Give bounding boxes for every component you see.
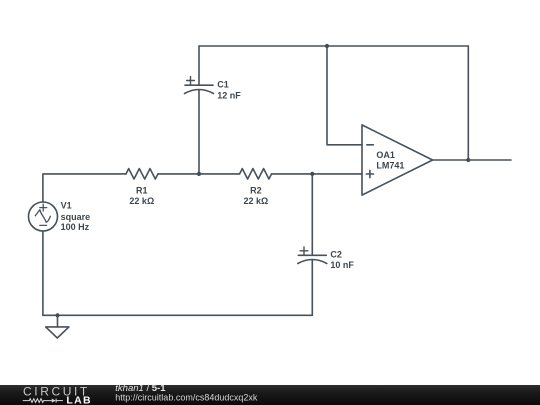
svg-text:http://circuitlab.com/cs84dudc: http://circuitlab.com/cs84dudcxq2xk (115, 392, 258, 402)
op-amp plus symbol (366, 170, 373, 177)
svg-text:LAB: LAB (66, 394, 91, 405)
svg-text:C2: C2 (330, 249, 342, 259)
voltage source V1 (29, 202, 58, 231)
wire C2 lower (311, 260, 313, 315)
svg-text:LM741: LM741 (376, 161, 404, 171)
wire V1 bottom vertical (42, 231, 44, 315)
op-amp U1 triangle (362, 125, 433, 195)
wire output (433, 159, 511, 161)
svg-text:22 kΩ: 22 kΩ (244, 196, 269, 206)
svg-text:R1: R1 (136, 185, 148, 195)
svg-text:100 Hz: 100 Hz (61, 222, 90, 232)
svg-text:10 nF: 10 nF (330, 260, 354, 270)
svg-text:C1: C1 (217, 80, 229, 90)
node R2/C2 junction (310, 172, 314, 176)
node R1/C1 junction (197, 172, 201, 176)
wire bottom rail (43, 314, 312, 316)
wire top feedback horizontal (199, 45, 468, 47)
wire R1 to R2 (158, 173, 240, 175)
svg-text:OA1: OA1 (376, 150, 395, 160)
resistor R2 (240, 169, 272, 179)
wire main row left (V1 to R1) (43, 174, 126, 202)
capacitor C2 (298, 247, 327, 264)
wire C2 upper (311, 174, 313, 255)
wire R2 to op-amp plus input (272, 173, 362, 175)
wire C1 upper (198, 46, 200, 85)
svg-text:V1: V1 (61, 200, 72, 210)
resistor R1 (126, 169, 158, 179)
node output junction (466, 158, 470, 162)
node feedback top junction (325, 44, 329, 48)
capacitor C1 (185, 77, 214, 94)
svg-text:square: square (61, 212, 91, 222)
svg-text:12 nF: 12 nF (217, 90, 241, 100)
svg-text:22 kΩ: 22 kΩ (129, 196, 154, 206)
node ground junction (55, 313, 59, 317)
wire feedback vertical to inverting input (327, 46, 362, 145)
ground (46, 315, 69, 338)
wire right vertical from top to output (467, 46, 469, 160)
wire C1 lower (198, 90, 200, 174)
logo resistor-diode squiggle (23, 399, 63, 403)
svg-text:R2: R2 (250, 185, 262, 195)
op-amp minus symbol (367, 144, 374, 146)
